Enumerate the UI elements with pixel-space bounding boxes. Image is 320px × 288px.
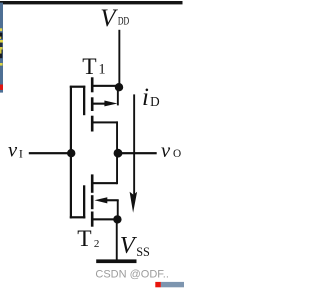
T1 label [82, 54, 105, 80]
T2 label [77, 226, 99, 252]
T1 drain lead [93, 121, 118, 123]
svg-text:O: O [173, 148, 181, 160]
svg-text:DD: DD [118, 14, 130, 28]
svg-text:2: 2 [94, 238, 100, 250]
T2 gate wire (input dropper) [70, 153, 72, 218]
iD label [142, 84, 160, 111]
svg-text:i: i [142, 84, 149, 111]
T1 gate wire (input riser) [70, 86, 72, 154]
watermark logo bar blue-gray segment [161, 282, 184, 287]
T1 body lead [93, 103, 106, 105]
svg-text:SS: SS [136, 245, 150, 259]
T1 channel middle segment [91, 97, 94, 111]
VDD supply wire [118, 30, 120, 87]
T2 source node dot [113, 215, 121, 223]
T1 gate top bend [70, 86, 86, 88]
T2 body arrow (points left) [94, 197, 107, 203]
top border bar [0, 1, 183, 4]
output label vO [161, 140, 181, 162]
VSS label [120, 232, 150, 259]
T2 drain wire [116, 154, 118, 185]
svg-text:v: v [161, 140, 171, 162]
T2 gate bar [83, 185, 85, 218]
VDD label [100, 5, 129, 32]
VSS wire [116, 219, 118, 260]
T1 drain wire [116, 121, 118, 153]
T2 channel bottom segment [91, 212, 94, 227]
T1 gate bar [83, 86, 85, 115]
T2 drain lead [93, 182, 117, 184]
svg-text:V: V [100, 5, 118, 32]
T1 body tie wire [117, 87, 119, 105]
left book-spine strip [0, 3, 3, 93]
T2 channel middle segment [91, 195, 94, 209]
T1 body arrow (points right) [104, 101, 117, 107]
VSS terminal bar [96, 259, 136, 263]
input wire [29, 152, 72, 154]
svg-text:T: T [82, 54, 96, 80]
iD current arrow [130, 94, 138, 212]
input node dot [67, 149, 75, 157]
svg-text:CSDN @ODF..: CSDN @ODF.. [95, 268, 169, 280]
T1 channel bottom segment [91, 116, 94, 132]
T2 channel top segment [91, 174, 94, 192]
T2 source lead [93, 218, 118, 220]
output wire [118, 152, 157, 154]
svg-text:1: 1 [98, 61, 105, 77]
svg-text:v: v [8, 139, 18, 161]
output node dot [114, 149, 123, 158]
svg-text:T: T [77, 226, 91, 252]
junction dot T1 source / VDD [115, 83, 123, 91]
svg-text:D: D [150, 94, 160, 109]
watermark logo bar red segment [155, 282, 161, 287]
input label vI [8, 139, 23, 161]
T2 gate bottom bend [70, 216, 86, 218]
T2 body lead [107, 199, 119, 201]
T1 source lead [93, 85, 119, 87]
svg-text:I: I [19, 146, 23, 160]
T1 channel top segment [91, 77, 94, 92]
svg-text:V: V [120, 232, 138, 259]
T2 body tie wire [117, 200, 119, 219]
